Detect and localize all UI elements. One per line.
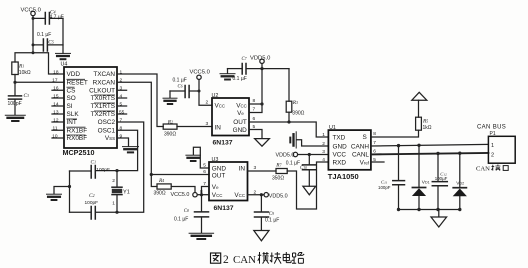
junction rail VD2 xyxy=(458,208,461,211)
svg-text:IN: IN xyxy=(215,125,222,132)
svg-text:Ve: Ve xyxy=(237,110,244,117)
svg-text:2: 2 xyxy=(491,152,494,158)
diode VD1 xyxy=(412,145,426,209)
svg-text:6N137: 6N137 xyxy=(213,139,233,146)
svg-text:6: 6 xyxy=(373,149,376,155)
svg-text:RESET: RESET xyxy=(67,80,88,87)
glyph dian (电) xyxy=(283,252,291,263)
junction Ve/C8 xyxy=(200,193,203,196)
svg-text:8: 8 xyxy=(373,131,376,137)
node VCC5.0 (U2 side) xyxy=(197,75,201,79)
junction C10 drop xyxy=(308,153,311,156)
svg-text:CAN: CAN xyxy=(233,254,256,266)
svg-text:TXCAN: TXCAN xyxy=(93,71,115,78)
svg-text:VDD5.0: VDD5.0 xyxy=(276,153,295,159)
svg-text:100pF: 100pF xyxy=(8,101,22,107)
ground (C7) xyxy=(220,74,235,80)
node VDD5.0 (U3 pin2) xyxy=(264,193,268,197)
glyph lu (路) xyxy=(292,253,304,264)
op-amp U1 TJA1050 body xyxy=(328,130,371,170)
svg-text:VCC5.0: VCC5.0 xyxy=(190,69,210,75)
svg-text:5: 5 xyxy=(373,157,376,163)
ground (C8) xyxy=(189,233,214,239)
wire TJA S pin to R5 xyxy=(371,130,419,137)
svg-text:SI: SI xyxy=(67,103,73,110)
svg-text:TX0RTS: TX0RTS xyxy=(91,95,115,102)
svg-text:RXD: RXD xyxy=(333,159,347,166)
svg-text:0.1 µF: 0.1 µF xyxy=(265,218,279,224)
svg-text:C7: C7 xyxy=(242,57,247,62)
wire caps to ground xyxy=(54,187,70,194)
svg-text:4.7 µF: 4.7 µF xyxy=(50,15,64,21)
wire VCC5.0 to U3 pin8 xyxy=(197,194,209,196)
svg-text:SLK: SLK xyxy=(67,111,80,118)
svg-text:1: 1 xyxy=(322,132,325,138)
pin names U4 left column xyxy=(67,71,88,142)
wire U3 pin2 to VDD5.0 xyxy=(248,194,265,196)
ground arrow (C9) xyxy=(254,231,269,241)
wire CANH xyxy=(371,144,489,146)
pin names U4 right column xyxy=(89,71,115,142)
svg-text:8: 8 xyxy=(253,98,256,104)
svg-text:C11: C11 xyxy=(381,179,388,184)
svg-text:2: 2 xyxy=(223,254,229,266)
svg-text:0.1 µF: 0.1 µF xyxy=(173,78,187,84)
wire VCC5.0 to U2 pin2 xyxy=(199,80,212,106)
svg-text:IN: IN xyxy=(239,165,246,172)
svg-text:C1: C1 xyxy=(91,160,97,166)
svg-text:18: 18 xyxy=(53,69,59,75)
wire RXCAN pin2 to U3 OUT xyxy=(117,82,209,174)
svg-text:17: 17 xyxy=(52,78,58,84)
svg-text:VCC5.0: VCC5.0 xyxy=(21,8,41,14)
svg-text:1: 1 xyxy=(112,201,115,207)
svg-text:GND: GND xyxy=(233,127,248,134)
svg-text:8: 8 xyxy=(200,189,203,195)
svg-text:TJA1050: TJA1050 xyxy=(328,172,359,181)
junction CANH/C11 xyxy=(397,144,400,147)
svg-text:U1: U1 xyxy=(329,125,336,131)
svg-text:3: 3 xyxy=(322,149,325,155)
svg-text:SO: SO xyxy=(67,95,76,102)
svg-text:VCC: VCC xyxy=(234,192,245,199)
ground (C3) xyxy=(5,115,25,121)
svg-text:6: 6 xyxy=(253,116,256,122)
svg-text:CAN BUS: CAN BUS xyxy=(477,124,506,130)
svg-text:RXCAN: RXCAN xyxy=(93,80,116,87)
junction C6/VCC rail xyxy=(198,90,201,93)
svg-text:VD1: VD1 xyxy=(422,179,430,185)
wire R5 to power arrow xyxy=(418,100,420,117)
wire U2 OUT to TJA TXD xyxy=(249,122,328,137)
wire OSC2 pin7 down to crystal bottom row xyxy=(96,122,144,212)
capacitor C7 xyxy=(228,64,247,75)
svg-text:OUT: OUT xyxy=(233,119,247,126)
svg-text:VDD5.0: VDD5.0 xyxy=(269,194,288,200)
svg-text:3: 3 xyxy=(120,86,123,92)
svg-text:1: 1 xyxy=(491,143,494,149)
svg-text:U4: U4 xyxy=(61,61,68,67)
node VDD5.0 (TJA VCC) xyxy=(293,152,297,156)
svg-text:C3: C3 xyxy=(24,93,30,99)
svg-text:R3: R3 xyxy=(292,100,298,106)
wire C7 to ground xyxy=(227,69,229,74)
junction R3/OUT line xyxy=(287,120,290,123)
svg-text:16: 16 xyxy=(53,86,59,92)
wire TJA RXD hook to R7 xyxy=(287,162,328,209)
svg-text:100pF: 100pF xyxy=(85,200,99,206)
glyph mo (模) xyxy=(258,252,269,264)
svg-text:8: 8 xyxy=(120,126,123,132)
svg-text:VCC: VCC xyxy=(215,102,226,109)
glyph jie (接) xyxy=(492,165,501,171)
wire protection bottom rail xyxy=(399,209,460,211)
capacitor C12 xyxy=(432,154,447,210)
svg-text:1kΩ: 1kΩ xyxy=(423,125,432,131)
svg-text:2: 2 xyxy=(254,189,257,195)
svg-text:R1: R1 xyxy=(18,64,24,70)
svg-text:C2: C2 xyxy=(89,193,95,199)
svg-text:390Ω: 390Ω xyxy=(154,191,166,197)
svg-text:11: 11 xyxy=(53,126,58,132)
svg-text:VDD5.0: VDD5.0 xyxy=(250,56,270,62)
wire C1/C2 left vertical xyxy=(69,171,71,212)
junction VDD/pin8 xyxy=(260,102,263,105)
svg-text:S: S xyxy=(363,134,367,141)
svg-text:390Ω: 390Ω xyxy=(292,111,304,117)
pin numbers U3 xyxy=(200,163,257,196)
svg-text:OUT: OUT xyxy=(212,172,226,179)
svg-text:C8: C8 xyxy=(184,209,189,214)
svg-text:7: 7 xyxy=(253,107,256,113)
ground (Vss U4) xyxy=(123,147,139,153)
junction R1/C3/RESET xyxy=(13,81,16,84)
node VCC5.0 (U3 side) xyxy=(193,193,197,197)
junction RXCAN/R4 xyxy=(150,173,153,176)
svg-text:15: 15 xyxy=(53,93,59,99)
resistor R3 xyxy=(286,69,292,122)
power arrow (up triangle) xyxy=(412,92,427,100)
svg-text:VCC: VCC xyxy=(212,192,223,199)
pin numbers U2 right xyxy=(253,98,256,130)
resistor R7 xyxy=(248,169,288,174)
capacitor C8 xyxy=(195,212,209,233)
pin numbers U4 right xyxy=(119,69,125,139)
svg-text:2: 2 xyxy=(120,78,123,84)
junction C9 drop xyxy=(260,193,263,196)
svg-text:P1: P1 xyxy=(490,131,496,137)
svg-text:10: 10 xyxy=(52,133,58,139)
svg-text:100pF: 100pF xyxy=(96,167,110,173)
node VDD5.0 (top) xyxy=(260,59,264,63)
resistor R2 xyxy=(163,124,177,129)
wire OSC1 pin8 down to crystal top row xyxy=(96,130,138,170)
svg-text:5: 5 xyxy=(203,163,206,169)
pin names U3 xyxy=(212,165,227,199)
capacitor C10 xyxy=(303,155,317,187)
svg-text:OSC2: OSC2 xyxy=(98,119,116,126)
wire CANL xyxy=(371,153,489,155)
wire VDD to U2 pin8 pin7 xyxy=(249,69,262,113)
svg-text:MCP2510: MCP2510 xyxy=(63,148,95,157)
junction VDD circle stem xyxy=(260,67,263,70)
svg-text:TX1RTS: TX1RTS xyxy=(91,103,115,110)
junction VCC/C4 xyxy=(32,17,35,20)
junction VCC/C5 xyxy=(32,43,35,46)
junction rail C12 xyxy=(436,208,439,211)
svg-text:TX2RTS: TX2RTS xyxy=(91,111,115,118)
svg-text:RX1BF: RX1BF xyxy=(67,127,88,134)
svg-text:VDD: VDD xyxy=(67,71,81,78)
wire R2 to U2 pin3 xyxy=(177,126,212,128)
junction VCC rail bottom xyxy=(32,51,35,54)
svg-text:INT: INT xyxy=(67,119,77,126)
junction caps ground branch xyxy=(68,185,71,188)
ground (TJA GND pin, left-pointing) xyxy=(290,132,328,148)
svg-text:0.1 µF: 0.1 µF xyxy=(174,216,188,222)
glyph kuai (块) xyxy=(270,252,281,264)
svg-text:3: 3 xyxy=(254,165,257,171)
capacitor C9 xyxy=(255,195,269,231)
wire TJA Vref stub xyxy=(371,161,384,163)
svg-text:GND: GND xyxy=(333,143,348,150)
svg-text:U3: U3 xyxy=(212,157,219,163)
svg-text:R7: R7 xyxy=(275,163,282,169)
overlines U4 active-low pins xyxy=(67,79,116,135)
svg-text:350Ω: 350Ω xyxy=(272,175,284,181)
svg-text:Vref: Vref xyxy=(360,159,370,166)
resistor R1 xyxy=(12,62,18,75)
svg-text:0.1 µF: 0.1 µF xyxy=(233,76,247,82)
op-amp U2 6N137 body xyxy=(212,98,249,136)
svg-text:2: 2 xyxy=(322,141,325,147)
junction rail C11 xyxy=(397,208,400,211)
wire VCC rail to R1 and VDD feed xyxy=(15,53,64,74)
resistor R4 xyxy=(151,175,195,193)
capacitor C5 xyxy=(33,39,63,51)
svg-text:4: 4 xyxy=(120,93,123,99)
resistor R5 xyxy=(416,117,422,130)
glyph tu (图) xyxy=(211,253,221,263)
svg-text:Y1: Y1 xyxy=(123,189,130,195)
junction CANL/VD2 xyxy=(458,152,461,155)
ground arrow (U2 GND) xyxy=(255,139,270,147)
svg-text:CANH: CANH xyxy=(351,143,369,150)
ground (crystal caps) xyxy=(47,194,62,200)
ground arrow (bus rail) xyxy=(431,210,447,228)
wire C4/C5 right plates to ground xyxy=(62,18,64,53)
wire R1 to RESET node xyxy=(15,75,64,83)
svg-text:390Ω: 390Ω xyxy=(164,132,176,138)
svg-text:0.1 µF: 0.1 µF xyxy=(37,32,51,38)
svg-text:10kΩ: 10kΩ xyxy=(19,70,31,76)
svg-text:CANL: CANL xyxy=(352,152,369,159)
capacitor C2 xyxy=(70,207,96,220)
junction crystal bottom xyxy=(115,211,118,214)
svg-text:14: 14 xyxy=(53,101,59,107)
capacitor C3 xyxy=(9,82,22,114)
svg-text:7: 7 xyxy=(373,140,376,146)
connector P1 body xyxy=(488,136,515,163)
svg-text:13: 13 xyxy=(53,109,59,115)
wire C6 to ground xyxy=(169,91,171,98)
svg-text:U2: U2 xyxy=(212,93,219,99)
ground arrow (C10) xyxy=(303,186,316,195)
op-amp U3 6N137 body xyxy=(209,162,248,201)
svg-text:7: 7 xyxy=(203,181,206,187)
svg-text:GND: GND xyxy=(212,165,227,172)
svg-text:6N137: 6N137 xyxy=(214,205,234,212)
junction rail VD1 xyxy=(417,208,420,211)
svg-text:5: 5 xyxy=(253,124,256,130)
svg-text:VCC: VCC xyxy=(236,102,247,109)
svg-text:12: 12 xyxy=(53,117,59,123)
pin numbers U1 xyxy=(322,131,376,163)
svg-text:R5: R5 xyxy=(422,118,428,124)
caption figure 2 xyxy=(211,252,305,266)
capacitor C11 xyxy=(393,146,405,210)
svg-text:VCC5.0: VCC5.0 xyxy=(171,192,190,198)
wire VDD5.0 rail xyxy=(246,64,289,69)
wire U3 Ve tie xyxy=(202,187,210,212)
svg-text:CS: CS xyxy=(67,87,76,94)
svg-text:VSS: VSS xyxy=(105,135,115,142)
capacitor C1 xyxy=(70,166,96,179)
svg-text:6: 6 xyxy=(203,169,206,175)
ground (C6) xyxy=(163,98,177,104)
junction crystal top xyxy=(115,169,118,172)
svg-text:CLKOUT: CLKOUT xyxy=(89,87,115,94)
svg-text:100µF: 100µF xyxy=(435,176,448,181)
capacitor C4 xyxy=(33,13,63,25)
svg-text:0.1 µF: 0.1 µF xyxy=(286,161,300,167)
svg-text:C9: C9 xyxy=(269,212,274,217)
pin stubs U4 right (CLKOUT TX0RTS TX1RTS TX2RTS) xyxy=(117,90,127,114)
svg-text:2: 2 xyxy=(112,178,115,184)
capacitor C6 xyxy=(170,86,199,98)
svg-text:3: 3 xyxy=(206,121,209,127)
svg-text:7: 7 xyxy=(120,117,123,123)
svg-text:9: 9 xyxy=(120,133,123,139)
svg-text:Ve: Ve xyxy=(212,184,219,191)
wire TXCAN pin1 to R2 xyxy=(117,74,163,127)
svg-text:OSC1: OSC1 xyxy=(98,127,116,134)
svg-text:5: 5 xyxy=(120,101,123,107)
junction CANL/C12 xyxy=(436,152,439,155)
svg-text:4: 4 xyxy=(322,157,325,163)
svg-text:CAN: CAN xyxy=(476,166,490,173)
svg-text:RX0BF: RX0BF xyxy=(67,135,88,142)
svg-text:TXD: TXD xyxy=(333,134,346,141)
wire VDD5.0 to TJA VCC xyxy=(298,154,329,156)
pin names U2 xyxy=(215,102,226,131)
ground (C4/C5) xyxy=(56,53,71,59)
wire VCC5.0 rail vertical xyxy=(32,16,34,53)
diode VD2 xyxy=(453,153,467,209)
svg-text:C6: C6 xyxy=(178,84,183,89)
svg-text:100pF: 100pF xyxy=(378,185,391,190)
op-amp U4 MCP2510 body xyxy=(64,67,117,148)
pin names U1 xyxy=(333,134,348,166)
svg-text:55: 55 xyxy=(119,109,125,115)
text CAN interface label xyxy=(476,165,508,173)
pin stubs U4 left xyxy=(52,90,64,138)
crystal Y1 xyxy=(112,171,122,213)
svg-text:VCC: VCC xyxy=(333,152,347,159)
node VCC5.0 (top-left power) xyxy=(31,11,35,15)
glyph kou (口) xyxy=(503,166,508,171)
junction CANH/VD1 xyxy=(417,144,420,147)
wire U2 GND to arrow ground xyxy=(249,130,262,139)
ground (U3 GND pin) xyxy=(186,147,209,168)
svg-text:1: 1 xyxy=(120,69,123,75)
svg-text:2: 2 xyxy=(206,100,209,106)
pin numbers U4 left xyxy=(52,69,59,139)
wire Vss pin9 to ground xyxy=(117,138,129,146)
